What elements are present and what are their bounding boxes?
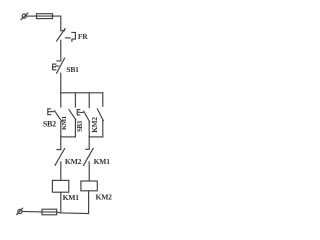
wire FR to SB1 xyxy=(60,40,62,60)
svg-text:KM1: KM1 xyxy=(94,157,111,166)
node C: right merge bus xyxy=(89,136,103,138)
node A: top bus xyxy=(61,92,103,94)
fuse FU1 xyxy=(37,14,53,19)
svg-text:KM1: KM1 xyxy=(63,193,80,202)
interlock contact KM1 (NC) xyxy=(84,148,94,165)
wire interlock to coil KM1 xyxy=(60,162,62,180)
svg-text:KM2: KM2 xyxy=(96,193,113,202)
wire SB1 to node A (top bus) xyxy=(60,73,62,93)
svg-text:FR: FR xyxy=(78,32,89,41)
interlock contact KM2 (NC) xyxy=(55,149,65,166)
coil KM1 xyxy=(52,180,68,192)
contact KM2 (NO self-holding), branch 4 xyxy=(97,93,103,137)
thermal relay contact FR (NC) xyxy=(57,29,76,42)
bottom rail wire xyxy=(22,210,42,213)
terminal (bottom, power return) xyxy=(17,208,23,214)
wire coil KM1 to bottom rail xyxy=(60,192,62,213)
fuse FU2 xyxy=(42,209,57,215)
svg-text:SB1: SB1 xyxy=(66,65,79,74)
wire interlock to coil KM2 xyxy=(88,162,90,181)
terminal (top, power source) xyxy=(21,13,28,20)
bottom rail wire right xyxy=(57,212,89,213)
start button SB2 (NO pushbutton), branch 1 xyxy=(48,93,62,137)
wire node B to interlock xyxy=(60,137,62,149)
wire coil KM2 to bottom rail xyxy=(88,191,90,214)
wire node C to interlock xyxy=(88,137,90,149)
svg-text:SB2: SB2 xyxy=(43,119,56,128)
node B: left merge bus xyxy=(61,136,76,138)
contact KM1 (NO self-holding), branch 2 xyxy=(69,93,76,137)
coil KM2 xyxy=(81,181,97,191)
svg-text:KM1: KM1 xyxy=(61,116,68,130)
svg-text:SB3: SB3 xyxy=(77,120,84,132)
stop button SB1 (NC pushbutton) xyxy=(53,58,65,73)
wire fuse FU1 to corner xyxy=(53,16,61,30)
wire terminal to fuse FU1 xyxy=(26,15,36,17)
start button SB3 (NO pushbutton), branch 3 xyxy=(77,93,90,137)
svg-text:KM2: KM2 xyxy=(90,117,99,133)
svg-text:KM2: KM2 xyxy=(65,157,82,166)
